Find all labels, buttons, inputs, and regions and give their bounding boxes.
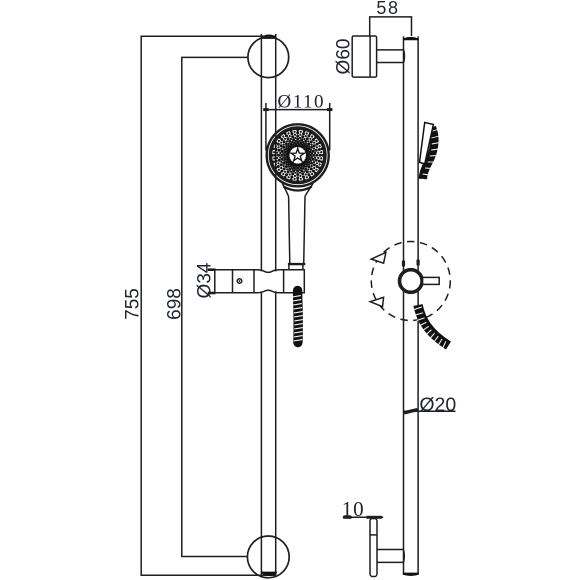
front bottom bracket circle bbox=[247, 536, 289, 578]
hand shower side hook end bbox=[420, 179, 425, 184]
rotation arrow bottom bbox=[370, 297, 383, 306]
side bar top cap bbox=[403, 37, 419, 40]
shower head rim bbox=[271, 128, 325, 182]
svg-text:10: 10 bbox=[342, 497, 365, 521]
slider dashed circle bbox=[371, 242, 450, 321]
hand shower side blade bbox=[420, 123, 434, 164]
side bar bottom cap bbox=[403, 573, 419, 576]
dimension 698 line bbox=[182, 57, 248, 556]
front hose coil stripes bbox=[292, 296, 303, 341]
side hose coil stripes bbox=[414, 307, 446, 349]
hand shower handle bbox=[288, 197, 305, 270]
dimension D34 ticks bbox=[208, 270, 216, 293]
holder screw dot bbox=[237, 279, 242, 284]
front top bracket circle bbox=[248, 37, 289, 78]
svg-text:698: 698 bbox=[165, 288, 186, 320]
hand shower side coil stripes bbox=[421, 130, 440, 182]
top bracket arm (side) bbox=[377, 50, 405, 63]
slider bar tick right bbox=[417, 260, 420, 266]
shower head face dots bbox=[271, 129, 324, 182]
slide holder body bbox=[215, 270, 304, 293]
front bar lower segment bbox=[261, 291, 275, 575]
svg-text:Ø60: Ø60 bbox=[334, 39, 355, 75]
side bar bbox=[404, 36, 419, 574]
shower head neck bbox=[282, 182, 314, 197]
rotation arrow top bbox=[371, 252, 386, 263]
dimension 58 bbox=[370, 17, 412, 36]
svg-text:Ø20: Ø20 bbox=[419, 394, 456, 416]
front bar bottom cap bbox=[261, 572, 278, 576]
dimension 10 bbox=[343, 516, 383, 518]
svg-text:58: 58 bbox=[376, 0, 399, 18]
hand shower side coil bbox=[423, 128, 435, 180]
svg-text:Ø34: Ø34 bbox=[195, 262, 216, 298]
front bar upper segment bbox=[261, 34, 275, 271]
bottom wall plate (side) bbox=[370, 519, 377, 577]
top wall plate (side) bbox=[352, 36, 376, 77]
shower head outer circle bbox=[267, 124, 329, 186]
slider bar tick left bbox=[402, 261, 405, 267]
front bar top cap bbox=[261, 35, 278, 39]
front hose coil bbox=[293, 291, 303, 343]
svg-text:755: 755 bbox=[123, 288, 144, 320]
side hose coil bbox=[418, 305, 449, 346]
dimension D110 bbox=[263, 103, 332, 151]
svg-text:Ø110: Ø110 bbox=[278, 91, 326, 112]
bottom bracket arm (side) bbox=[377, 550, 404, 563]
slider knob ring bbox=[400, 270, 423, 293]
dimension 755 line bbox=[141, 36, 276, 575]
slider knob stub bbox=[423, 277, 440, 284]
dimension D20 leader bbox=[403, 410, 455, 413]
